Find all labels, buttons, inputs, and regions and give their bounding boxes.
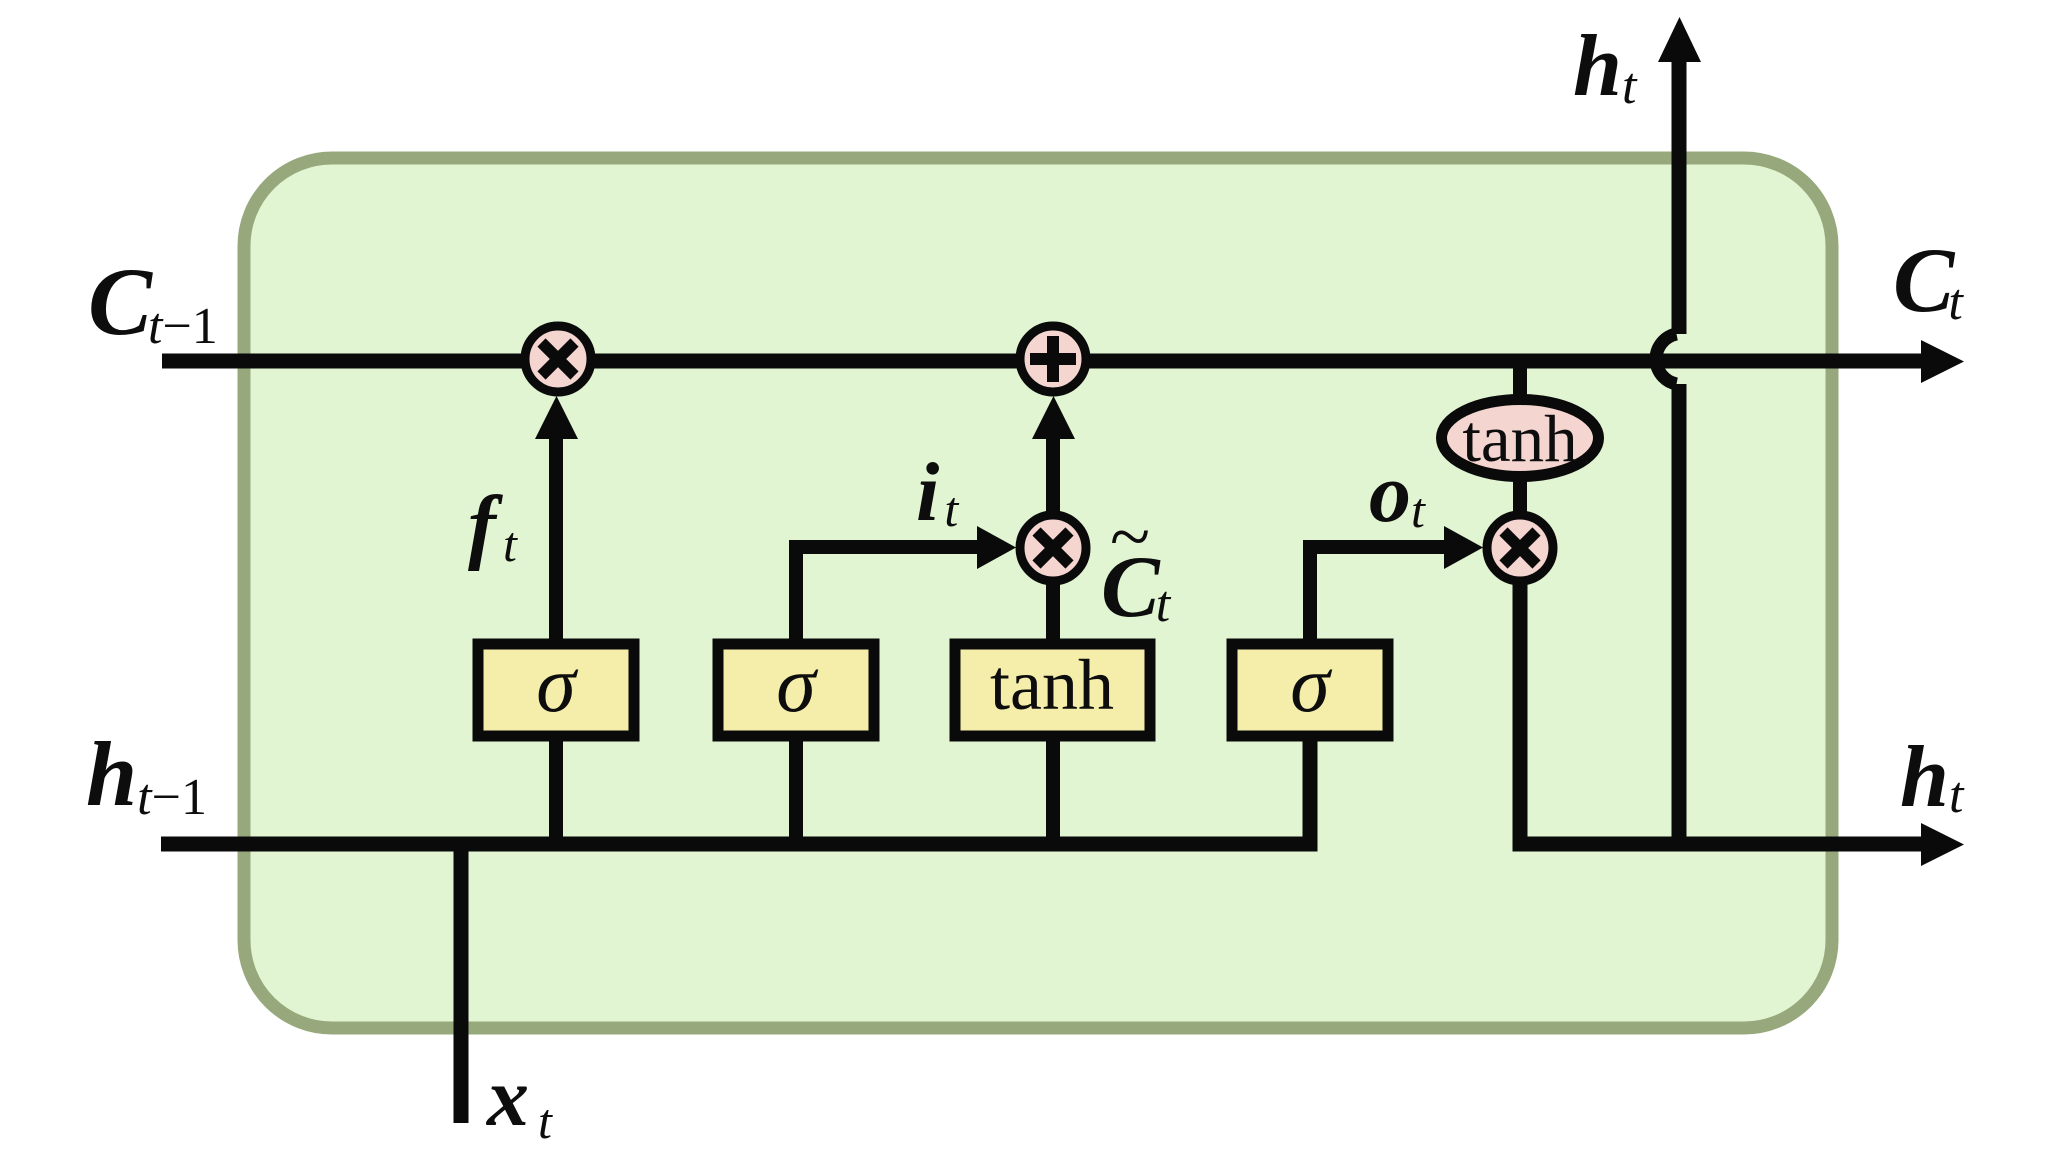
svg-text:~: ~ xyxy=(1110,496,1150,578)
LSTM cell body xyxy=(244,158,1832,1028)
wire C line (cell state, Ct-1 to Ct) xyxy=(162,354,1926,369)
wire multiply 2 to add 1 xyxy=(1046,434,1060,513)
svg-text:xt: xt xyxy=(485,1051,553,1149)
wire ht upward branch above hop xyxy=(1672,60,1687,334)
arrowhead ht output top xyxy=(1658,17,1701,62)
wire ft: sigma1 to multiply 1 xyxy=(549,434,563,640)
svg-text:ht: ht xyxy=(1573,18,1638,115)
arrowhead Ct output xyxy=(1921,340,1964,383)
wire xt input branch xyxy=(454,844,469,1123)
arrowhead ft into multiply 1 xyxy=(535,396,578,439)
operator multiply 1 (forget gate product) xyxy=(525,326,591,392)
svg-text:σ: σ xyxy=(1290,641,1332,729)
wire it: sigma2 up and right to multiply 2 xyxy=(796,547,978,640)
wire hop arc over C line xyxy=(1656,334,1676,384)
arrowhead ot into multiply 3 xyxy=(1444,526,1483,569)
wire ht output line (from multiply 3 down and right) xyxy=(1520,580,1926,844)
arrowhead into add 1 xyxy=(1032,396,1075,439)
wire ot: sigma4 up and right to multiply 3 xyxy=(1310,547,1445,640)
svg-text:tanh: tanh xyxy=(990,645,1114,725)
operator multiply 2 (input gate product) xyxy=(1020,515,1086,581)
operator multiply 3 (output gate product) xyxy=(1487,515,1553,581)
arrowhead ht output right xyxy=(1921,823,1964,866)
wire candidate: tanh-box to multiply 2 xyxy=(1046,582,1060,640)
wire sigma1 bottom connector xyxy=(549,740,563,844)
svg-text:tanh: tanh xyxy=(1462,402,1577,476)
svg-text:ht: ht xyxy=(1900,729,1965,826)
wire C line down to tanh ellipse xyxy=(1513,361,1527,398)
gate sigma 2 (input gate) xyxy=(718,644,874,736)
svg-text:ht−1: ht−1 xyxy=(86,723,207,826)
wire ht upward branch below hop xyxy=(1672,384,1687,844)
wire tanh-box bottom connector xyxy=(1046,740,1060,844)
svg-text:σ: σ xyxy=(776,641,818,729)
gate sigma 1 (forget gate) xyxy=(478,644,634,736)
operator add 1 (cell state sum) xyxy=(1020,326,1086,392)
arrowhead it into multiply 2 xyxy=(977,526,1016,569)
wire sigma2 bottom connector xyxy=(789,740,803,844)
wire tanh ellipse to multiply 3 xyxy=(1513,478,1527,515)
function tanh ellipse xyxy=(1442,400,1599,477)
svg-text:Ct: Ct xyxy=(1893,229,1964,331)
svg-text:Ct−1: Ct−1 xyxy=(88,248,218,355)
svg-text:σ: σ xyxy=(536,641,578,729)
gate tanh box (candidate) xyxy=(955,644,1150,736)
wire ht-1 line (bottom input line with elbow up into sigma 4) xyxy=(161,740,1310,844)
gate sigma 4 (output gate) xyxy=(1232,644,1388,736)
